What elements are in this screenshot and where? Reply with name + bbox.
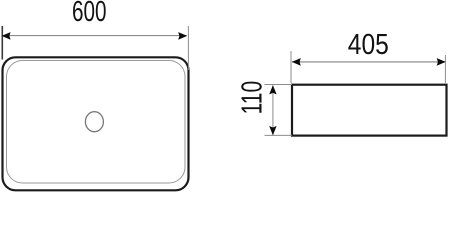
svg-text:405: 405 xyxy=(348,29,389,61)
arrowhead left (405) xyxy=(292,58,301,66)
arrowhead right (600) xyxy=(178,32,187,40)
extension line right (600) xyxy=(187,26,189,70)
arrowhead up (110) xyxy=(269,85,276,94)
arrowhead left (600) xyxy=(2,32,11,40)
dimension line 110 xyxy=(272,86,274,136)
extension line left (405) xyxy=(290,51,292,83)
drain hole xyxy=(85,112,103,132)
extension line bottom (110) xyxy=(265,134,293,136)
arrowhead right (405) xyxy=(437,58,446,66)
dimension line 405 xyxy=(292,61,445,63)
top view: basin inner rim xyxy=(7,61,186,184)
svg-text:600: 600 xyxy=(72,0,107,28)
extension line top (110) xyxy=(265,84,293,86)
top view: basin outer rim xyxy=(3,57,189,190)
side view: basin profile xyxy=(292,85,447,136)
arrowhead down (110) xyxy=(269,126,276,135)
dimension line 600 xyxy=(4,35,187,37)
svg-text:110: 110 xyxy=(236,81,268,115)
extension line left (600) xyxy=(1,26,3,60)
extension line right (405) xyxy=(444,55,446,83)
